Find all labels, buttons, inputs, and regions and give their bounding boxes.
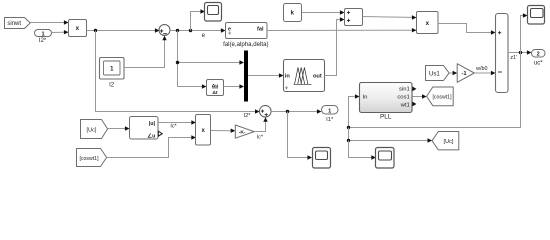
sum S2 <box>260 106 272 118</box>
wire fuzzy to sum S3 <box>325 17 345 75</box>
product X1 <box>69 20 87 37</box>
wire X3 to gain K1 <box>211 129 236 133</box>
svg-text:out: out <box>313 73 322 79</box>
svg-text:PLL: PLL <box>380 113 392 120</box>
svg-text:I1*: I1* <box>326 117 334 123</box>
wire PLL cos1 to goto coswt1 <box>413 94 427 98</box>
wire fal to product X2 <box>267 28 417 32</box>
vertical sum S4 <box>496 14 509 93</box>
svg-text:x: x <box>426 20 430 27</box>
wire derivative to mux <box>224 84 245 88</box>
svg-text:sin1: sin1 <box>399 86 410 92</box>
product X3 <box>196 115 211 146</box>
svg-text:x: x <box>76 25 80 32</box>
node e1 <box>176 29 179 32</box>
svg-text:In: In <box>363 95 368 101</box>
mux Mux <box>244 51 248 102</box>
wire uc* node up to scope2 <box>521 13 528 52</box>
node PLL feed <box>347 126 350 129</box>
wire I2 to sum S1 minus input <box>124 36 167 68</box>
product X2 <box>417 12 439 34</box>
svg-text:2: 2 <box>537 52 540 58</box>
svg-text:z1': z1' <box>510 55 517 61</box>
wire K1 to sum S2 <box>254 117 268 131</box>
svg-text:sinwt: sinwt <box>7 21 21 27</box>
goto Uc <box>432 132 459 150</box>
node e branch <box>176 61 179 64</box>
wire node e2 up to scope1 <box>191 9 206 30</box>
wire X1 node down to sum S2, I2* reference <box>96 31 260 120</box>
svg-text:[coswt1]: [coswt1] <box>432 95 452 101</box>
complex to magnitude-angle block <box>130 117 163 140</box>
From block sinwt <box>5 18 31 29</box>
svg-text:-1: -1 <box>461 71 467 77</box>
svg-text:1: 1 <box>41 31 44 37</box>
wire G1 to S4 minus, w/b0 <box>474 66 495 75</box>
wire mux to fuzzy controller <box>248 73 284 77</box>
svg-text:Ic*: Ic* <box>170 123 177 129</box>
wire X2 to vertical sum S4 <box>438 24 496 35</box>
svg-text:in: in <box>285 73 291 79</box>
From Us1 <box>426 66 450 81</box>
derivative block du/dt <box>207 80 224 96</box>
gain -K- <box>235 125 264 140</box>
PLL block <box>360 83 417 121</box>
svg-text:fal(e,alpha,delta): fal(e,alpha,delta) <box>223 41 268 48</box>
scope Scope1 <box>205 3 222 22</box>
wire k to sum S3 <box>302 10 345 14</box>
wire I2* to product X1 <box>52 30 69 34</box>
scope Scope2 <box>528 6 545 25</box>
svg-text:uc*: uc* <box>534 60 543 66</box>
svg-text:-K-: -K- <box>239 130 246 136</box>
From Uc <box>81 120 108 139</box>
svg-text:fal: fal <box>257 27 264 33</box>
wire coswt1 to product X3 <box>107 135 196 157</box>
wire feed down to goto Uc <box>349 128 433 143</box>
svg-text:w/b0: w/b0 <box>475 66 487 72</box>
wire S3 to product X2 <box>363 15 417 19</box>
wire uc* node down and left to PLL feed <box>349 53 521 128</box>
wire magnitude to product X3, Ic* <box>158 120 196 129</box>
svg-text:Us1: Us1 <box>429 70 440 77</box>
wire e branch down to mux and derivative <box>178 31 245 89</box>
wire S4 to outport uc*, z1' <box>508 50 532 61</box>
outport uc* <box>532 50 546 67</box>
svg-text:[coswt1]: [coswt1] <box>79 156 99 162</box>
svg-text:I2*: I2* <box>244 113 252 119</box>
sum S1 <box>159 25 170 36</box>
svg-text:wt1: wt1 <box>400 103 410 109</box>
wire sinwt to product X1 <box>30 20 68 24</box>
fal function block <box>223 23 268 49</box>
constant I2 <box>100 58 125 89</box>
wire S1 to fal, error e <box>170 28 226 39</box>
wire Us1 to gain G1 <box>449 71 457 75</box>
svg-text:Ic*: Ic* <box>257 134 264 140</box>
fuzzy logic controller <box>284 60 325 92</box>
wire S2 to outport I1* <box>271 109 321 113</box>
gain k <box>284 4 302 22</box>
svg-text:∠u: ∠u <box>147 133 155 139</box>
svg-text:[Uc]: [Uc] <box>444 139 454 145</box>
goto coswt1 <box>427 87 454 106</box>
constant I2* <box>35 30 52 45</box>
From coswt1 <box>77 149 107 167</box>
node uc* <box>519 51 522 54</box>
svg-text:I2: I2 <box>109 82 115 88</box>
node I1 branch <box>286 110 289 113</box>
node Uc branch <box>347 139 350 142</box>
node e2 <box>189 29 192 32</box>
wire Uc to complex block <box>108 126 130 130</box>
svg-text:I2*: I2* <box>39 38 47 44</box>
svg-text:[Uc]: [Uc] <box>87 127 97 133</box>
gain -1 <box>457 64 474 83</box>
svg-text:1: 1 <box>328 108 331 114</box>
wire I1 branch to scope3 <box>288 112 313 160</box>
outport I1* <box>322 106 339 124</box>
scope Scope4 <box>376 148 395 169</box>
svg-text:|u|: |u| <box>149 121 156 127</box>
svg-text:Δt: Δt <box>212 90 218 96</box>
node after X1 <box>94 29 97 32</box>
wire feed down to scope4 <box>349 141 376 160</box>
sum S3 <box>345 9 363 26</box>
scope Scope3 <box>313 148 331 169</box>
svg-text:cos1: cos1 <box>397 95 409 101</box>
wire X1 to sum S1 <box>87 28 160 32</box>
